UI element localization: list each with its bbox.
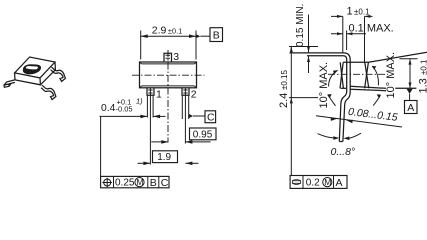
svg-text:0.15 MIN.: 0.15 MIN.: [295, 4, 306, 47]
svg-text:2.9: 2.9: [152, 25, 167, 37]
svg-text:1): 1): [136, 97, 143, 106]
svg-text:3: 3: [173, 51, 179, 63]
svg-text:C: C: [161, 177, 169, 189]
svg-text:2.4: 2.4: [278, 93, 290, 108]
svg-text:M: M: [136, 177, 143, 187]
svg-text:0.2: 0.2: [306, 178, 320, 189]
svg-text:-0.05: -0.05: [116, 104, 133, 113]
svg-text:1: 1: [347, 6, 353, 18]
svg-text:A: A: [336, 177, 343, 189]
svg-text:0.1 MAX.: 0.1 MAX.: [349, 22, 394, 34]
svg-text:2: 2: [191, 89, 197, 101]
svg-text:M: M: [324, 177, 331, 187]
svg-text:0.25: 0.25: [115, 178, 135, 189]
svg-text:0...8°: 0...8°: [331, 146, 356, 158]
svg-text:±0.1: ±0.1: [420, 59, 427, 75]
svg-text:1: 1: [156, 89, 162, 101]
svg-text:10° MAX.: 10° MAX.: [385, 52, 397, 99]
svg-text:1.3: 1.3: [418, 78, 427, 93]
svg-text:B: B: [213, 30, 220, 42]
svg-text:B: B: [150, 177, 157, 189]
svg-text:±0.1: ±0.1: [354, 8, 370, 17]
svg-text:±0.1: ±0.1: [168, 27, 183, 36]
svg-text:0.95: 0.95: [193, 129, 213, 140]
svg-text:C: C: [207, 111, 215, 123]
svg-text:±0.15: ±0.15: [280, 69, 289, 90]
svg-text:A: A: [407, 102, 414, 114]
svg-text:1.9: 1.9: [157, 152, 171, 163]
svg-text:0.4: 0.4: [101, 103, 116, 114]
